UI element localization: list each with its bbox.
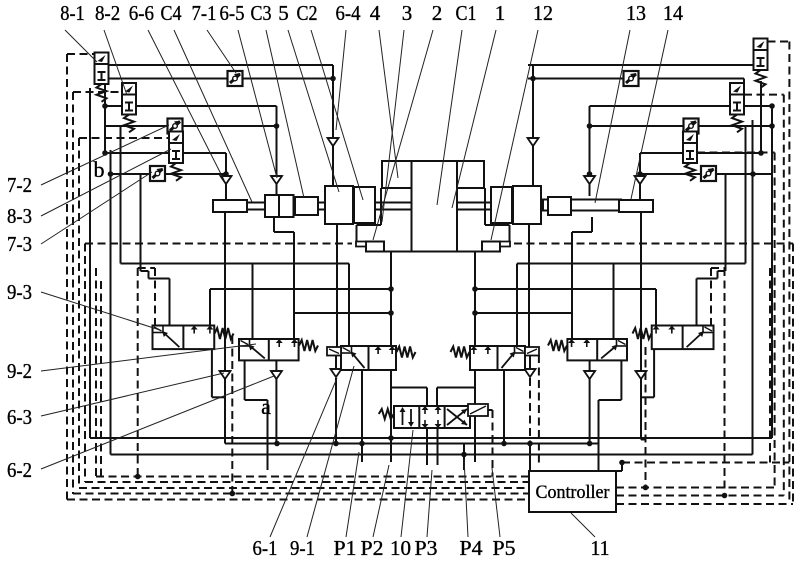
wire x120 <box>120 126 122 264</box>
wire x140 down <box>140 174 142 271</box>
svg-text:Controller: Controller <box>536 483 610 503</box>
check valve 7-1 <box>228 71 243 86</box>
cylinder block C right <box>513 186 541 224</box>
check symbol 6-4 <box>328 138 339 146</box>
junction b node <box>108 171 114 177</box>
svg-text:2: 2 <box>432 1 443 25</box>
controller dashed bus 8 <box>616 495 784 497</box>
spring of 9-2 <box>299 340 318 351</box>
foot bracket right <box>482 242 500 252</box>
leader 1 <box>452 30 496 208</box>
leader 11 <box>571 513 595 537</box>
leader 6-6 <box>148 30 224 180</box>
line from 8-3 to x226 <box>183 152 226 154</box>
leader P3 <box>427 470 432 537</box>
check valve 7-2 <box>168 119 183 134</box>
leader 8-2 <box>104 30 127 95</box>
vertical x226 to cylinder cap <box>225 153 227 201</box>
check symbol on x276 <box>271 176 282 184</box>
cylinder cap left <box>213 200 247 212</box>
svg-text:b: b <box>94 157 105 182</box>
svg-text:9-2: 9-2 <box>7 359 32 383</box>
svg-text:11: 11 <box>591 536 610 560</box>
wire step right <box>591 217 593 232</box>
junction <box>461 452 467 458</box>
leader 6-2 <box>41 376 274 469</box>
bus line y126 right <box>590 125 773 127</box>
pilot drop x137 <box>137 268 139 477</box>
leader 2 <box>373 30 433 240</box>
leader 14 <box>631 30 668 199</box>
leader C4 <box>174 30 252 202</box>
dashed pilot line left 4 <box>84 244 86 483</box>
bus line y65 right <box>528 64 760 66</box>
dashed pilot line left 5 <box>95 268 97 477</box>
leader 4 <box>379 30 398 178</box>
leader C2 <box>311 30 363 200</box>
pilot box of valve 10 <box>468 404 488 416</box>
controller dashed bus 3 <box>79 487 529 489</box>
relief valve 8-1 <box>95 53 109 65</box>
check valve 13 area check <box>624 71 639 86</box>
relief valve 8-3 <box>169 132 183 144</box>
junction <box>587 171 593 177</box>
wire x530 to controller <box>529 444 531 472</box>
svg-text:6-4: 6-4 <box>336 1 361 25</box>
dashed pilot line right 3 <box>774 153 776 488</box>
svg-text:6-3: 6-3 <box>7 405 32 429</box>
wire y263 right <box>517 263 746 265</box>
svg-text:P2: P2 <box>361 536 384 560</box>
pilot stub 6-1 <box>529 356 531 369</box>
wire x391 foot to valve <box>390 252 392 347</box>
svg-text:7-1: 7-1 <box>192 1 217 25</box>
valve 6-2 <box>341 346 396 370</box>
svg-text:3: 3 <box>402 1 413 25</box>
junction <box>501 441 507 447</box>
wire y313 right <box>475 312 572 314</box>
mid bus line <box>225 443 599 445</box>
controller dashed bus 4 <box>73 493 529 495</box>
leader 8-3 <box>41 149 171 216</box>
vertical x333 with check 6-4 <box>332 65 334 186</box>
junction <box>472 286 478 292</box>
wire 9-2 port down <box>275 360 277 444</box>
controller dashed bus 2 <box>85 481 529 483</box>
pilot dashed bus y243 right <box>514 243 793 245</box>
line x761 to relief right 3 <box>697 152 761 154</box>
junction <box>274 123 280 129</box>
main cylinder body 4 <box>382 161 484 188</box>
main vertical right x761b <box>760 81 762 153</box>
line y174 b-node <box>111 173 227 175</box>
wire x517 to valve 6-1 <box>516 264 518 347</box>
wire x745 <box>745 126 747 264</box>
junction <box>619 460 625 466</box>
staircase to right outer <box>718 270 726 272</box>
dashed drop x530 <box>529 378 531 444</box>
bus line y78 left <box>105 78 333 80</box>
junction <box>587 441 593 447</box>
leader 9-1 <box>307 366 354 537</box>
staircase to 9-3 <box>141 270 149 272</box>
svg-text:9-3: 9-3 <box>7 280 32 304</box>
leader 12 <box>491 30 538 240</box>
junction <box>722 493 728 499</box>
controller top stub <box>621 463 623 472</box>
leader 3 <box>382 30 404 222</box>
leader P5 <box>492 468 500 537</box>
svg-text:C2: C2 <box>297 1 318 25</box>
junction <box>637 171 643 177</box>
wire v6-1 bottom to valve10 <box>474 370 476 462</box>
svg-text:P1: P1 <box>334 536 357 560</box>
junction <box>274 441 280 447</box>
port P4 <box>463 444 465 471</box>
wire x744 to relief <box>743 79 745 94</box>
leader 7-1 <box>207 30 236 73</box>
valve 9-3 <box>153 326 215 350</box>
controller dashed bus 1 <box>96 476 529 478</box>
spring of valve 10 <box>379 409 394 419</box>
pilot line 9-1 right <box>645 347 647 488</box>
junction <box>223 171 229 177</box>
svg-text:C1: C1 <box>456 1 477 25</box>
check on control x590 <box>584 371 595 379</box>
leader C1 <box>437 30 462 205</box>
pilot line right outer up <box>710 268 712 326</box>
pilot line 9-3 <box>154 268 156 326</box>
svg-text:13: 13 <box>626 1 646 25</box>
junction <box>230 491 236 497</box>
piston rod right <box>454 202 621 204</box>
valve 10 body <box>394 406 470 428</box>
valve right outer <box>652 326 714 350</box>
controller box 11 <box>529 471 616 512</box>
wire 9-3 out <box>211 349 213 397</box>
svg-text:12: 12 <box>533 1 553 25</box>
wire feed 9-2 top <box>252 264 254 340</box>
svg-text:14: 14 <box>663 1 683 25</box>
dashed pilot line left 2 <box>72 92 74 494</box>
control line x529 <box>528 224 530 347</box>
controller dashed bus 9 <box>616 503 793 505</box>
pilot dashed bus y243 left <box>85 243 352 245</box>
wire x210 feed 9-3 <box>209 289 211 326</box>
svg-text:5: 5 <box>278 1 289 25</box>
cylinder block D right <box>491 187 512 223</box>
dashed pilot line right 1 <box>788 42 790 505</box>
control line x225 cap to bus <box>224 212 226 444</box>
bus line y106 right <box>590 105 773 107</box>
junction <box>359 441 365 447</box>
svg-text:6-1: 6-1 <box>253 536 278 560</box>
check on control x336 <box>331 369 342 377</box>
feed lines to valve 10 <box>390 346 392 388</box>
wire 9-1 out <box>620 360 622 400</box>
relief valve right 2 <box>730 83 744 95</box>
line y174 right <box>640 173 772 175</box>
junction <box>388 435 394 441</box>
svg-text:8-2: 8-2 <box>95 1 120 25</box>
pilot dashed 6-1 box side <box>538 355 540 463</box>
spring of right outer <box>633 328 652 339</box>
junction <box>102 103 108 109</box>
junction <box>388 286 394 292</box>
main ram 1 <box>412 161 458 252</box>
leader 10 <box>401 430 413 537</box>
piston rod left <box>247 202 412 204</box>
valve 10 middle cell <box>424 407 426 414</box>
wire v6-2 bottom to valve10 <box>390 370 392 462</box>
spring of 6-1 <box>451 347 470 358</box>
piston right <box>548 197 571 215</box>
junction <box>750 171 756 177</box>
pilot line 9-2 <box>231 336 233 494</box>
valve 6-1 <box>470 346 525 370</box>
cylinder cap right <box>619 200 653 212</box>
svg-text:a: a <box>261 394 271 419</box>
dashed pilot line right 5 <box>769 268 771 463</box>
wire step C4 bottom <box>273 217 275 232</box>
control line x337 <box>336 224 338 347</box>
pilot dashed of valve 10 <box>492 410 494 477</box>
wire x349 to valve 6-2 <box>348 264 350 347</box>
junction <box>388 310 394 316</box>
leader 6-3 <box>41 373 224 416</box>
wire y289 right <box>475 288 656 290</box>
dashed pilot line right 4 <box>792 244 794 505</box>
bus line y78 right <box>528 78 744 80</box>
leader 5 <box>288 30 339 192</box>
junction <box>530 76 536 82</box>
wire 9-1 port down <box>589 360 591 444</box>
wire y313 <box>294 312 391 314</box>
check valve right 3 <box>701 166 716 181</box>
vertical x640 to cylinder cap <box>639 153 641 201</box>
line x105 to 8-3 <box>105 152 169 154</box>
svg-text:7-2: 7-2 <box>7 173 32 197</box>
leader C3 <box>266 30 304 198</box>
bottom line of cylinder <box>368 251 501 253</box>
vertical x276 to cylinder <box>276 106 278 196</box>
spring of 9-1 <box>548 340 567 351</box>
controller dashed bus 7 <box>616 487 775 489</box>
wire x656 feed right outer <box>655 289 657 326</box>
cylinder 5 block <box>325 186 353 224</box>
leader 13 <box>595 30 630 203</box>
control line x641 cap to bus <box>640 212 642 440</box>
check valve 7-3 <box>150 166 165 181</box>
valve 10 right cell X <box>447 409 467 425</box>
cylinder C2 block <box>354 187 375 223</box>
junction <box>587 123 593 129</box>
check on control x276 <box>271 371 282 379</box>
dashed pilot line left 6 <box>100 281 102 482</box>
dashed pilot line left 3 <box>78 138 80 488</box>
pilot line right outer <box>724 268 726 496</box>
wire y289 <box>210 288 391 290</box>
dashed pilot line left 1 <box>66 54 68 500</box>
wire 6-1 drain <box>503 370 505 444</box>
bus line y106 left <box>105 105 277 107</box>
check symbol on x640 <box>635 176 646 184</box>
leader 7-3 <box>41 172 152 244</box>
svg-text:P4: P4 <box>460 536 484 560</box>
cylinder C4 body <box>265 195 294 217</box>
pilot stub 6-2 <box>335 356 337 369</box>
svg-text:8-1: 8-1 <box>60 1 85 25</box>
relief valve 8-2 <box>122 83 136 95</box>
svg-text:6-5: 6-5 <box>220 1 245 25</box>
leader 9-3 <box>41 292 160 330</box>
frame line A <box>89 88 91 438</box>
leader 8-1 <box>65 30 97 62</box>
svg-text:1: 1 <box>495 1 506 25</box>
line from relief right 3 <box>640 152 683 154</box>
wire x336 to bus <box>335 378 337 444</box>
check symbol on x226 <box>221 176 232 184</box>
right wall <box>484 188 486 225</box>
wire y263 <box>121 263 350 265</box>
check on control x641 <box>636 371 647 379</box>
svg-text:P3: P3 <box>415 536 438 560</box>
leader 7-2 <box>41 125 169 185</box>
junction <box>472 310 478 316</box>
bus line y65 left <box>105 64 333 66</box>
wire x475 foot to valve <box>474 252 476 347</box>
check on control x225 <box>220 371 231 379</box>
svg-text:C3: C3 <box>251 1 272 25</box>
leader 6-1 <box>270 378 337 537</box>
svg-text:9-1: 9-1 <box>290 536 315 560</box>
rod thick right <box>543 200 621 211</box>
junction <box>330 76 336 82</box>
piston C4 <box>295 197 318 215</box>
junction <box>769 123 775 129</box>
vertical x533 with check <box>532 65 534 186</box>
left wall <box>380 188 382 225</box>
junction <box>527 441 533 447</box>
foot bracket left <box>366 242 384 252</box>
wire 9-2 out <box>244 360 246 400</box>
main vertical left x105 <box>104 81 106 153</box>
junction <box>135 474 141 480</box>
frame line B <box>110 150 112 455</box>
junction <box>758 150 764 156</box>
leader P2 <box>373 465 389 537</box>
check symbol right top <box>528 138 539 146</box>
spring of 6-2 <box>397 347 416 358</box>
relief valve right 3 <box>683 132 697 144</box>
spring of 9-3 <box>215 328 234 339</box>
svg-text:7-3: 7-3 <box>7 232 32 256</box>
wire feed 9-1 top <box>613 264 615 340</box>
junction <box>333 441 339 447</box>
wire right outer out <box>653 349 655 397</box>
pilot box 6-2 <box>327 347 341 356</box>
wire 6-2 drain <box>361 370 363 462</box>
leader 6-4 <box>336 30 346 130</box>
wire x725 down <box>725 174 727 271</box>
junction <box>102 150 108 156</box>
relief valve right 1 <box>754 39 768 51</box>
junction right frame <box>769 103 775 109</box>
svg-text:4: 4 <box>370 1 381 25</box>
valve 9-1 <box>567 339 627 360</box>
junction <box>643 485 649 491</box>
svg-text:10: 10 <box>390 536 411 560</box>
check valve right 2 <box>684 119 699 134</box>
check on control x530 <box>525 369 536 377</box>
controller dashed bus 5 <box>67 499 529 501</box>
svg-text:C4: C4 <box>161 1 182 25</box>
valve 10 bottom ports <box>426 428 428 465</box>
vertical x590 to cylinder <box>589 106 591 196</box>
svg-text:6-6: 6-6 <box>129 1 154 25</box>
leader P4 <box>464 458 468 537</box>
leader 6-5 <box>238 30 277 178</box>
controller dashed bus 6 <box>622 462 789 464</box>
bus line y126 left <box>105 125 277 127</box>
leader 9-2 <box>41 344 256 371</box>
pilot box 6-1 <box>525 347 539 356</box>
dashed pilot line right 2 <box>783 95 785 496</box>
svg-text:6-2: 6-2 <box>7 458 32 482</box>
valve 10 left cell <box>402 409 404 425</box>
leader P1 <box>346 452 359 537</box>
svg-text:8-3: 8-3 <box>7 204 32 228</box>
valve 9-2 <box>239 339 299 360</box>
svg-text:P5: P5 <box>493 536 516 560</box>
check symbol on x590 <box>584 176 595 184</box>
